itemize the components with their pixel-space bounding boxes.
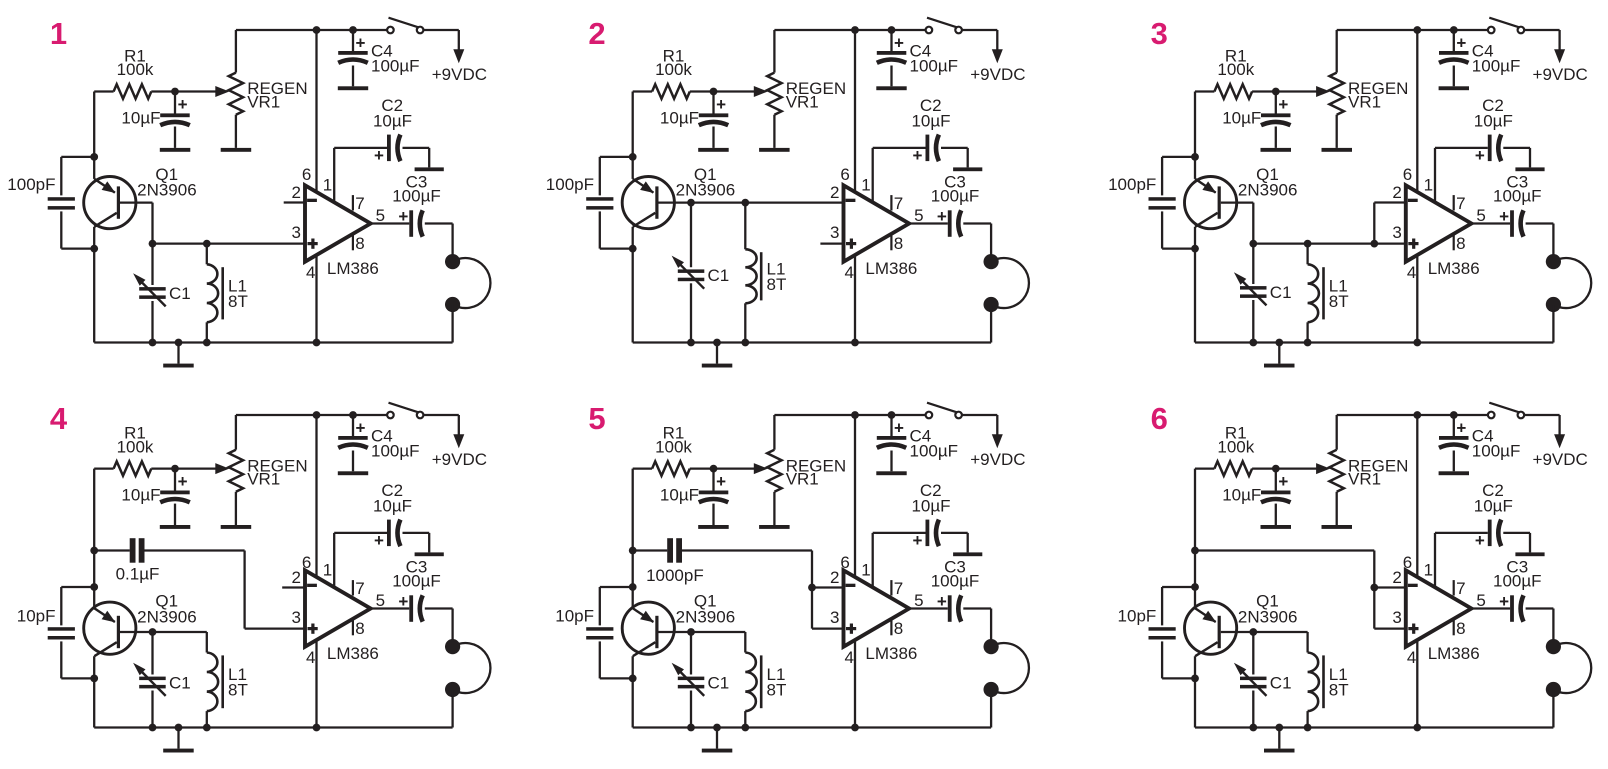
svg-text:+: + xyxy=(1456,34,1466,53)
svg-text:100µF: 100µF xyxy=(1472,57,1521,76)
svg-text:4: 4 xyxy=(1407,648,1416,667)
svg-text:+: + xyxy=(178,472,188,491)
svg-text:7: 7 xyxy=(894,194,903,213)
svg-text:100k: 100k xyxy=(1217,60,1254,79)
svg-text:100pF: 100pF xyxy=(7,175,55,194)
svg-text:4: 4 xyxy=(50,401,68,436)
svg-text:3: 3 xyxy=(292,223,301,242)
svg-text:10µF: 10µF xyxy=(1474,497,1513,516)
svg-text:4: 4 xyxy=(306,263,315,282)
svg-text:100k: 100k xyxy=(655,437,692,456)
svg-text:LM386: LM386 xyxy=(327,259,379,278)
svg-text:100µF: 100µF xyxy=(392,572,441,591)
svg-text:+9VDC: +9VDC xyxy=(432,450,487,469)
svg-text:7: 7 xyxy=(1456,579,1465,598)
svg-text:3: 3 xyxy=(830,608,839,627)
svg-text:C1: C1 xyxy=(1270,673,1292,692)
svg-text:+: + xyxy=(716,95,726,114)
svg-text:1: 1 xyxy=(50,16,67,51)
svg-text:10pF: 10pF xyxy=(1118,607,1157,626)
svg-text:7: 7 xyxy=(355,579,364,598)
svg-text:1: 1 xyxy=(323,175,332,194)
svg-text:10µF: 10µF xyxy=(1474,112,1513,131)
svg-text:C1: C1 xyxy=(1270,283,1292,302)
svg-text:100µF: 100µF xyxy=(371,442,420,461)
svg-text:C1: C1 xyxy=(169,284,191,303)
svg-text:VR1: VR1 xyxy=(247,470,280,489)
svg-text:100k: 100k xyxy=(117,60,154,79)
svg-text:LM386: LM386 xyxy=(1428,644,1480,663)
svg-text:8T: 8T xyxy=(767,275,787,294)
svg-text:7: 7 xyxy=(1456,194,1465,213)
svg-text:100k: 100k xyxy=(117,437,154,456)
svg-text:6: 6 xyxy=(302,165,311,184)
svg-text:10µF: 10µF xyxy=(121,486,160,505)
svg-text:+: + xyxy=(913,146,923,165)
svg-text:C1: C1 xyxy=(169,673,191,692)
svg-text:100µF: 100µF xyxy=(392,187,441,206)
svg-text:10pF: 10pF xyxy=(17,607,56,626)
svg-text:VR1: VR1 xyxy=(786,93,819,112)
svg-text:100k: 100k xyxy=(655,60,692,79)
svg-text:1: 1 xyxy=(861,560,870,579)
svg-text:2: 2 xyxy=(588,16,605,51)
svg-text:+: + xyxy=(894,419,904,438)
svg-text:5: 5 xyxy=(914,591,923,610)
svg-text:1: 1 xyxy=(1424,175,1433,194)
svg-text:2N3906: 2N3906 xyxy=(676,181,736,200)
svg-text:2: 2 xyxy=(1392,183,1401,202)
svg-text:+: + xyxy=(937,592,947,611)
svg-text:8: 8 xyxy=(1456,619,1465,638)
svg-text:+: + xyxy=(1456,419,1466,438)
svg-text:C1: C1 xyxy=(708,266,730,285)
svg-text:+: + xyxy=(894,34,904,53)
svg-text:+: + xyxy=(398,592,408,611)
svg-text:+: + xyxy=(398,207,408,226)
svg-text:5: 5 xyxy=(588,401,605,436)
svg-text:100µF: 100µF xyxy=(1493,572,1542,591)
svg-text:+: + xyxy=(1278,95,1288,114)
svg-text:2: 2 xyxy=(1392,568,1401,587)
svg-text:+9VDC: +9VDC xyxy=(970,65,1025,84)
svg-text:4: 4 xyxy=(845,263,854,282)
svg-text:0.1µF: 0.1µF xyxy=(116,564,160,583)
svg-text:6: 6 xyxy=(302,553,311,572)
svg-text:6: 6 xyxy=(1151,401,1168,436)
svg-text:7: 7 xyxy=(355,194,364,213)
svg-text:3: 3 xyxy=(1392,223,1401,242)
svg-text:2: 2 xyxy=(830,183,839,202)
svg-text:VR1: VR1 xyxy=(247,93,280,112)
svg-text:LM386: LM386 xyxy=(865,259,917,278)
svg-text:2: 2 xyxy=(292,568,301,587)
svg-text:+9VDC: +9VDC xyxy=(1533,65,1588,84)
svg-text:10µF: 10µF xyxy=(1222,109,1261,128)
svg-text:5: 5 xyxy=(376,206,385,225)
svg-text:2N3906: 2N3906 xyxy=(1238,608,1298,627)
svg-text:4: 4 xyxy=(845,648,854,667)
svg-text:1: 1 xyxy=(323,560,332,579)
svg-text:100µF: 100µF xyxy=(931,572,980,591)
svg-text:LM386: LM386 xyxy=(1428,259,1480,278)
svg-text:6: 6 xyxy=(1403,165,1412,184)
svg-text:+: + xyxy=(374,146,384,165)
svg-text:100µF: 100µF xyxy=(910,442,959,461)
svg-text:8T: 8T xyxy=(767,681,787,700)
svg-text:8: 8 xyxy=(894,234,903,253)
svg-text:+: + xyxy=(1475,531,1485,550)
svg-text:10µF: 10µF xyxy=(911,497,950,516)
svg-text:10µF: 10µF xyxy=(660,109,699,128)
svg-text:+: + xyxy=(1499,207,1509,226)
svg-text:8T: 8T xyxy=(228,292,248,311)
svg-text:7: 7 xyxy=(894,579,903,598)
svg-text:3: 3 xyxy=(1151,16,1168,51)
svg-text:+9VDC: +9VDC xyxy=(432,65,487,84)
svg-text:+: + xyxy=(1475,146,1485,165)
svg-text:+: + xyxy=(913,531,923,550)
svg-text:+: + xyxy=(374,531,384,550)
svg-text:VR1: VR1 xyxy=(1348,93,1381,112)
svg-text:100µF: 100µF xyxy=(371,57,420,76)
svg-text:6: 6 xyxy=(1403,553,1412,572)
svg-text:1000pF: 1000pF xyxy=(646,566,704,585)
svg-text:2: 2 xyxy=(830,568,839,587)
svg-text:100µF: 100µF xyxy=(931,187,980,206)
svg-text:2N3906: 2N3906 xyxy=(1238,181,1298,200)
svg-text:4: 4 xyxy=(1407,263,1416,282)
svg-text:+9VDC: +9VDC xyxy=(1533,450,1588,469)
svg-text:+: + xyxy=(1499,592,1509,611)
svg-text:3: 3 xyxy=(292,608,301,627)
svg-text:3: 3 xyxy=(830,223,839,242)
svg-text:10µF: 10µF xyxy=(373,112,412,131)
svg-text:100µF: 100µF xyxy=(1472,442,1521,461)
svg-text:2N3906: 2N3906 xyxy=(676,608,736,627)
svg-text:1: 1 xyxy=(1424,560,1433,579)
svg-text:100pF: 100pF xyxy=(546,175,594,194)
svg-text:8T: 8T xyxy=(1329,292,1349,311)
svg-text:+: + xyxy=(937,207,947,226)
svg-text:8: 8 xyxy=(1456,234,1465,253)
svg-text:6: 6 xyxy=(840,165,849,184)
svg-text:VR1: VR1 xyxy=(1348,470,1381,489)
svg-text:100pF: 100pF xyxy=(1108,175,1156,194)
svg-text:+: + xyxy=(356,419,366,438)
svg-text:8T: 8T xyxy=(228,681,248,700)
svg-text:100µF: 100µF xyxy=(1493,187,1542,206)
svg-text:8: 8 xyxy=(355,619,364,638)
svg-text:+: + xyxy=(716,472,726,491)
svg-text:5: 5 xyxy=(1476,591,1485,610)
svg-text:5: 5 xyxy=(1476,206,1485,225)
svg-text:100k: 100k xyxy=(1217,437,1254,456)
svg-text:10pF: 10pF xyxy=(555,607,594,626)
svg-text:5: 5 xyxy=(376,591,385,610)
svg-text:+: + xyxy=(178,95,188,114)
svg-text:10µF: 10µF xyxy=(1222,486,1261,505)
svg-text:C1: C1 xyxy=(708,673,730,692)
svg-text:LM386: LM386 xyxy=(327,644,379,663)
svg-text:2: 2 xyxy=(292,183,301,202)
svg-text:8: 8 xyxy=(355,234,364,253)
svg-text:+: + xyxy=(1278,472,1288,491)
svg-text:4: 4 xyxy=(306,648,315,667)
svg-text:8: 8 xyxy=(894,619,903,638)
svg-text:+9VDC: +9VDC xyxy=(970,450,1025,469)
svg-text:1: 1 xyxy=(861,175,870,194)
svg-text:10µF: 10µF xyxy=(121,109,160,128)
svg-text:5: 5 xyxy=(914,206,923,225)
svg-text:10µF: 10µF xyxy=(373,497,412,516)
svg-text:2N3906: 2N3906 xyxy=(137,608,197,627)
svg-text:100µF: 100µF xyxy=(910,57,959,76)
svg-text:+: + xyxy=(356,34,366,53)
svg-text:10µF: 10µF xyxy=(911,112,950,131)
svg-text:10µF: 10µF xyxy=(660,486,699,505)
svg-text:6: 6 xyxy=(840,553,849,572)
svg-text:VR1: VR1 xyxy=(786,470,819,489)
svg-text:LM386: LM386 xyxy=(865,644,917,663)
svg-text:2N3906: 2N3906 xyxy=(137,181,197,200)
svg-text:8T: 8T xyxy=(1329,681,1349,700)
svg-text:3: 3 xyxy=(1392,608,1401,627)
